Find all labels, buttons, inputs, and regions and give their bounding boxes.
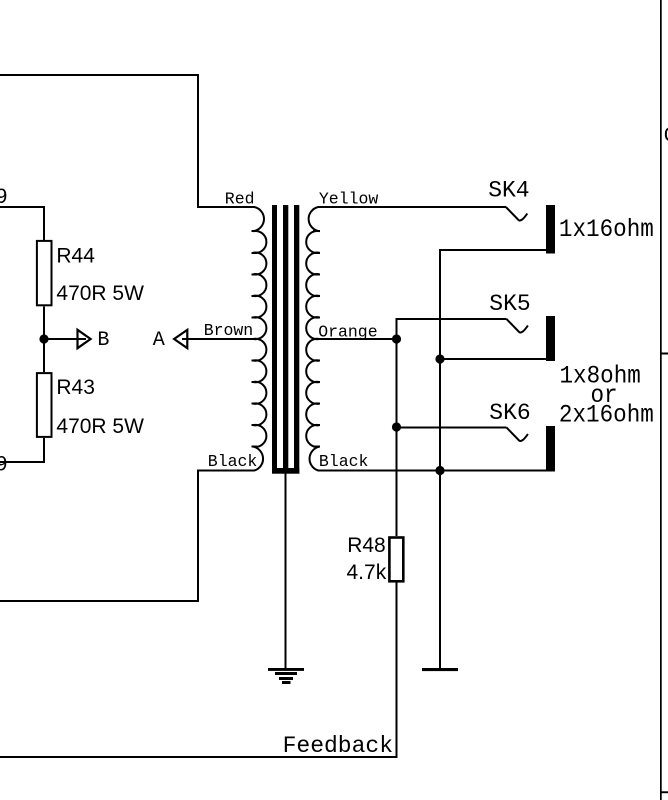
svg-text:Brown: Brown [204,321,254,340]
svg-text:R44: R44 [56,245,95,268]
svg-text:1x16ohm: 1x16ohm [559,216,654,244]
svg-text:A: A [153,329,165,352]
svg-text:Red: Red [225,189,255,208]
svg-text:Black: Black [319,452,369,471]
svg-text:SK4: SK4 [488,178,529,204]
svg-text:Black: Black [208,452,258,471]
svg-text:C: C [664,125,668,148]
svg-text:R43: R43 [56,376,95,399]
svg-text:9: 9 [0,452,7,475]
svg-text:Orange: Orange [318,323,377,342]
svg-text:2x16ohm: 2x16ohm [559,402,654,430]
svg-text:4.7k: 4.7k [347,561,387,584]
svg-text:470R 5W: 470R 5W [56,415,144,438]
svg-text:470R 5W: 470R 5W [56,282,144,305]
svg-text:Feedback: Feedback [283,733,393,759]
svg-text:B: B [97,329,109,352]
svg-text:9: 9 [0,185,7,208]
svg-text:R48: R48 [347,534,386,557]
svg-text:SK5: SK5 [489,291,530,317]
svg-text:SK6: SK6 [489,400,530,426]
svg-text:Yellow: Yellow [319,189,379,208]
